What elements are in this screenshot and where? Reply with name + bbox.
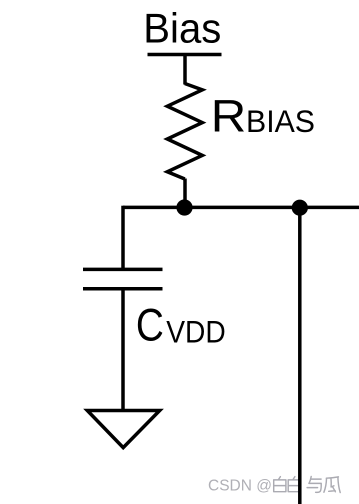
svg-text:VDD: VDD	[166, 313, 226, 349]
svg-text:CSDN @: CSDN @	[208, 478, 272, 495]
wire right vertical	[298, 208, 302, 504]
svg-text:Bias: Bias	[143, 5, 221, 52]
capacitor CVDD top plate	[83, 268, 163, 272]
svg-text:BIAS: BIAS	[246, 103, 315, 139]
wire	[121, 289, 125, 411]
capacitor CVDD bottom plate	[83, 287, 163, 291]
svg-text:C: C	[136, 299, 164, 350]
junction node dot right	[292, 200, 308, 216]
wire	[183, 179, 187, 208]
ground	[87, 411, 159, 448]
svg-text:R: R	[211, 91, 247, 142]
wire horizontal	[123, 206, 359, 210]
resistor RBIAS	[167, 84, 202, 180]
junction node dot left	[176, 199, 192, 215]
wire left vertical	[121, 206, 125, 270]
wire	[183, 55, 187, 85]
terminal bar	[148, 53, 222, 57]
